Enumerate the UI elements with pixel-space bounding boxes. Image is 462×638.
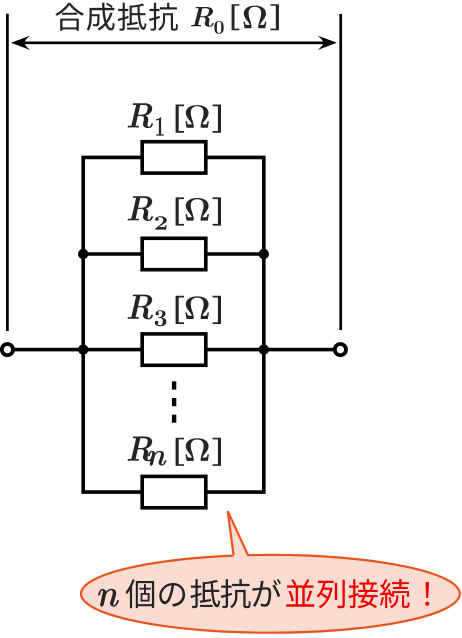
wire: right dimension extension line (node B side) [339, 14, 342, 330]
terminal: left input node A [2, 344, 13, 355]
wire: Rn left lead [81, 490, 142, 494]
node: dimension arrowhead left [11, 36, 30, 50]
wire: R1 left lead [81, 156, 142, 160]
resistor R1 [142, 142, 206, 173]
label: title 合成抵抗 (combined resistance) [55, 3, 178, 31]
label: callout text 並列接続！ (red) [286, 579, 429, 608]
label: title value R0[Ω] [191, 4, 279, 34]
resistor Rn [142, 476, 206, 507]
node junction A2 [259, 249, 269, 259]
node junction B1 [78, 344, 88, 354]
label: callout text 個の抵抗が [126, 579, 282, 608]
wire: dimension arrow shaft [20, 41, 328, 44]
node: callout bubble body [81, 555, 460, 633]
label Rn[Ω] value [128, 437, 221, 466]
node: callout tail outline [228, 511, 249, 556]
node: dimension arrowhead right [318, 36, 337, 50]
wire: R1 right lead [206, 156, 266, 160]
terminal: right output node B [335, 344, 346, 355]
wire: right branch bus [262, 157, 266, 492]
wire: ellipsis dashed line [172, 381, 176, 422]
label R3[Ω] value [128, 295, 221, 327]
resistor R2 [142, 238, 206, 269]
wire: left branch bus [81, 157, 85, 492]
node junction A1 [78, 249, 88, 259]
label R2[Ω] value [128, 196, 221, 229]
wire: R2 right lead [206, 252, 266, 256]
wire: main wire left segment [13, 348, 143, 352]
wire: Rn right lead [206, 490, 266, 494]
node: callout tail fill [228, 511, 250, 559]
wire: left dimension extension line (node A side) [6, 14, 9, 331]
wire: R2 left lead [81, 252, 142, 256]
resistor R3 [142, 334, 206, 365]
label: callout text n (italic) [98, 589, 119, 607]
label R1[Ω] value [128, 103, 221, 135]
node junction B2 [259, 344, 269, 354]
wire: main wire right segment [206, 348, 335, 352]
